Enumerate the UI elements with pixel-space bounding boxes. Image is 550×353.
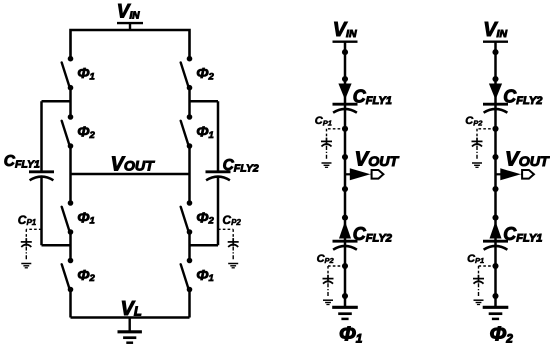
arrow charge flow into CFLY1	[338, 84, 351, 100]
wire main column (phase 2)	[494, 42, 497, 308]
node	[492, 293, 498, 299]
wire S3 to VOUT rail	[69, 146, 72, 174]
parasitic capacitor CP2 (phase 1)	[323, 266, 346, 305]
switch S5 (&#934;1)	[62, 200, 95, 235]
net label VIN (left circuit)	[117, 2, 143, 30]
capacitor CFLY1 (left circuit)	[29, 101, 54, 245]
node	[492, 49, 498, 55]
node	[342, 293, 348, 299]
wire between S6 and S8 with tap node	[188, 232, 191, 261]
capacitor CFLY1 (phase 1)	[333, 104, 358, 113]
wire tap from CFLY1 bottom	[42, 244, 71, 247]
node	[342, 186, 348, 192]
node	[342, 263, 348, 269]
output port arrow VOUT (phase 1)	[345, 168, 383, 180]
node	[342, 154, 348, 160]
net label VIN (phase 2 circuit)	[483, 19, 508, 42]
arrow charge flow out of CFLY1	[490, 221, 502, 238]
node	[342, 215, 348, 221]
wire main column (phase 1)	[344, 42, 347, 308]
node	[492, 186, 498, 192]
arrow charge flow into CFLY2	[489, 84, 502, 100]
wire between S1 and S3 with tap node	[69, 88, 72, 117]
parasitic capacitor CP1 (phase 2)	[473, 266, 496, 305]
node	[492, 154, 498, 160]
parasitic capacitor CP1 (phase 1)	[321, 129, 345, 168]
switch S1 (&#934;1)	[62, 56, 95, 91]
parasitic capacitor CP2 (phase 2)	[472, 129, 496, 168]
node	[492, 215, 498, 221]
wire tap to CFLY2 top	[190, 100, 219, 103]
switch S6 (&#934;2)	[181, 200, 215, 235]
capacitor CFLY2 (left circuit)	[206, 101, 231, 245]
capacitor CFLY2 (phase 1)	[333, 241, 358, 250]
wire S4 to VOUT rail	[188, 146, 191, 174]
capacitor CFLY2 (phase 2)	[483, 104, 508, 113]
switch S4 (&#934;1)	[181, 114, 214, 149]
wire VOUT rail to lower right branch	[188, 174, 191, 203]
wire tap from CFLY2 bottom	[190, 244, 219, 247]
node	[492, 76, 498, 82]
arrow charge flow out of CFLY2	[339, 221, 351, 238]
wire between S5 and S7 with tap node	[69, 232, 72, 261]
switch S8 (&#934;1)	[181, 258, 214, 293]
switch S2 (&#934;2)	[181, 56, 215, 91]
node	[342, 49, 348, 55]
capacitor CFLY1 (phase 2)	[483, 241, 508, 250]
wire tap to CFLY1 top	[42, 100, 71, 103]
wire VOUT rail (left circuit)	[71, 173, 190, 176]
wire S7 to VL rail	[69, 290, 72, 318]
node	[492, 126, 498, 132]
switch S7 (&#934;2)	[62, 258, 96, 293]
net label VIN (phase 1 circuit)	[333, 19, 358, 42]
ground (left circuit VL rail)	[118, 318, 142, 343]
output port arrow VOUT (phase 2)	[496, 168, 534, 180]
switch S3 (&#934;2)	[62, 114, 96, 149]
wire VIN top rail (left circuit)	[71, 30, 190, 59]
parasitic capacitor CP2 (left circuit)	[218, 229, 239, 267]
node	[342, 126, 348, 132]
wire VL bottom rail (left circuit)	[71, 316, 190, 319]
parasitic capacitor CP1 (left circuit)	[21, 229, 42, 267]
node	[492, 263, 498, 269]
wire S8 to VL rail	[188, 290, 191, 318]
ground (phase 2)	[483, 307, 509, 319]
wire between S2 and S4 with tap node	[188, 88, 191, 117]
wire VOUT rail to lower left branch	[69, 174, 72, 203]
node	[342, 76, 348, 82]
ground (phase 1)	[332, 307, 358, 319]
